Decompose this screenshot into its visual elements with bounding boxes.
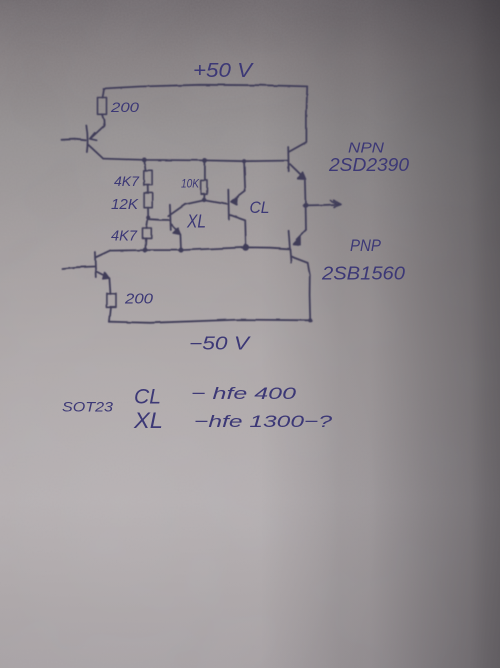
svg-text:2SD2390: 2SD2390 [328,155,409,175]
svg-text:XL: XL [186,212,206,232]
svg-text:NPN: NPN [348,140,384,157]
svg-text:4K7: 4K7 [111,229,138,245]
svg-text:PNP: PNP [350,237,381,255]
svg-text:CL: CL [134,386,161,409]
svg-text:XL: XL [133,408,163,433]
svg-text:+50 V: +50 V [193,60,254,82]
svg-text:12K: 12K [111,197,139,213]
svg-text:− hfe 400: − hfe 400 [191,384,297,403]
svg-text:4K7: 4K7 [114,173,140,189]
svg-text:10K: 10K [181,177,200,191]
svg-text:2SB1560: 2SB1560 [321,264,405,284]
svg-text:CL: CL [250,198,270,217]
svg-text:200: 200 [110,99,139,115]
svg-text:−hfe 1300−?: −hfe 1300−? [194,412,333,431]
svg-text:SOT23: SOT23 [62,399,113,415]
svg-text:−50 V: −50 V [189,334,252,354]
svg-text:200: 200 [124,292,153,308]
